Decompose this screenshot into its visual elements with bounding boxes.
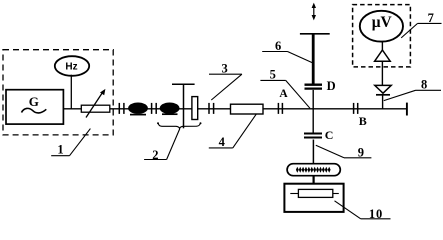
brace under group 2 [158, 123, 200, 128]
diode in meter box [375, 50, 391, 61]
resistor leads [290, 193, 298, 195]
flange pair 1 [118, 103, 120, 114]
wire down from diode [381, 61, 383, 85]
wire main horizontal line [63, 108, 408, 110]
hatch inside pill [296, 167, 331, 173]
svg-text:5: 5 [270, 68, 276, 82]
inner resistor rect [298, 189, 332, 197]
flange pair 3 [208, 103, 210, 114]
tuner section rectangle [192, 97, 198, 120]
junction vertical wire [312, 90, 314, 133]
frequency meter Hz [55, 56, 89, 76]
microvoltmeter [360, 11, 403, 42]
capacitor C [304, 133, 322, 135]
tuning stub thick line with T top [312, 34, 315, 85]
wire Hz meter to main line [70, 75, 72, 109]
dashed enclosure box 1 [3, 50, 113, 135]
double headed arrow [313, 6, 315, 17]
probe stub with T bar [172, 83, 195, 85]
capacitor D [305, 84, 323, 86]
detector diode [375, 85, 391, 93]
svg-text:9: 9 [358, 145, 364, 159]
isolator 2 [160, 103, 180, 114]
svg-text:8: 8 [421, 78, 427, 92]
svg-text:G: G [29, 94, 39, 109]
attenuator box 4 [231, 104, 264, 114]
svg-text:Hz: Hz [65, 62, 77, 73]
svg-text:3: 3 [222, 61, 228, 75]
wire capacitor C to thermistor [312, 140, 314, 164]
flange pair B [353, 103, 355, 114]
isolator 1 [128, 103, 148, 114]
svg-text:D: D [327, 79, 336, 93]
wire pill to power meter box [313, 176, 315, 184]
dashed box 7 [353, 5, 411, 67]
flange pair A [277, 103, 279, 114]
wire diode to main line [382, 95, 384, 109]
svg-text:4: 4 [219, 135, 226, 149]
flange pair 2 [151, 103, 153, 114]
svg-text:B: B [359, 114, 367, 128]
svg-text:A: A [279, 88, 288, 100]
svg-text:μV: μV [372, 14, 393, 31]
svg-text:2: 2 [152, 148, 158, 162]
wire meter to diode [381, 42, 383, 51]
generator G [6, 90, 63, 124]
power meter box 10 [284, 184, 343, 212]
svg-text:6: 6 [275, 39, 281, 53]
svg-text:1: 1 [57, 143, 63, 157]
variable attenuator [81, 105, 110, 112]
thermistor mount pill [287, 164, 340, 176]
termination bar [406, 103, 408, 116]
svg-text:C: C [325, 128, 334, 142]
